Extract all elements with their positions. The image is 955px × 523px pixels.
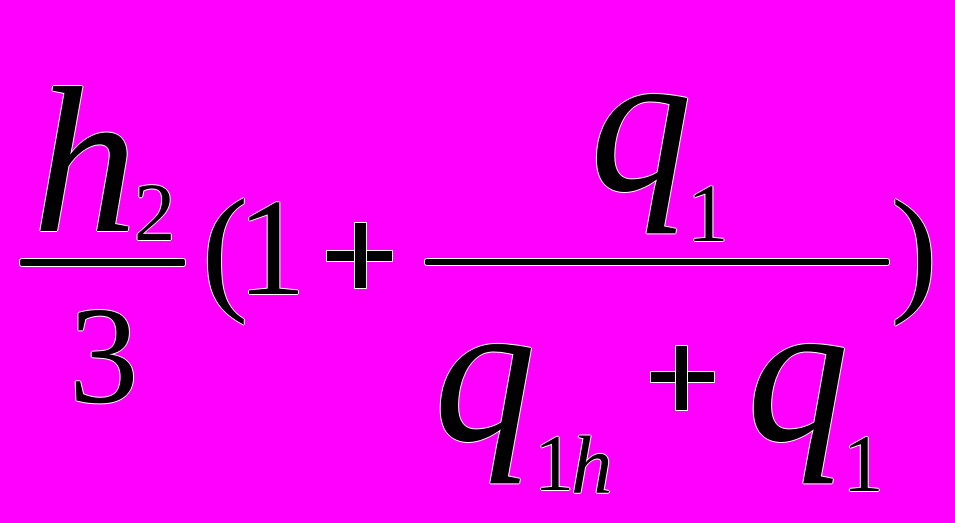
denominator 3 of left fraction bbox=[69, 355, 139, 357]
numerator subscript 1 bbox=[687, 212, 729, 214]
opening parenthesis bbox=[202, 248, 249, 250]
numerator h of left fraction bbox=[33, 161, 138, 163]
denominator subscript h of q1h bbox=[571, 464, 613, 466]
denominator subscript 1 of second q bbox=[843, 463, 884, 465]
denominator second q bbox=[747, 371, 849, 373]
digit 1 bbox=[237, 247, 307, 249]
plus sign horizontal stroke bbox=[327, 251, 392, 262]
subscript 2 of h bbox=[134, 211, 176, 213]
denominator first q bbox=[434, 371, 536, 373]
denominator subscript 1 of q1h bbox=[534, 463, 574, 465]
numerator q bbox=[590, 121, 692, 123]
left fraction bar bbox=[20, 259, 185, 266]
closing parenthesis bbox=[891, 249, 938, 251]
denominator plus horizontal stroke bbox=[651, 372, 715, 382]
plus sign vertical stroke bbox=[355, 223, 366, 288]
denominator plus vertical stroke bbox=[676, 346, 687, 410]
main fraction bar bbox=[425, 259, 889, 266]
